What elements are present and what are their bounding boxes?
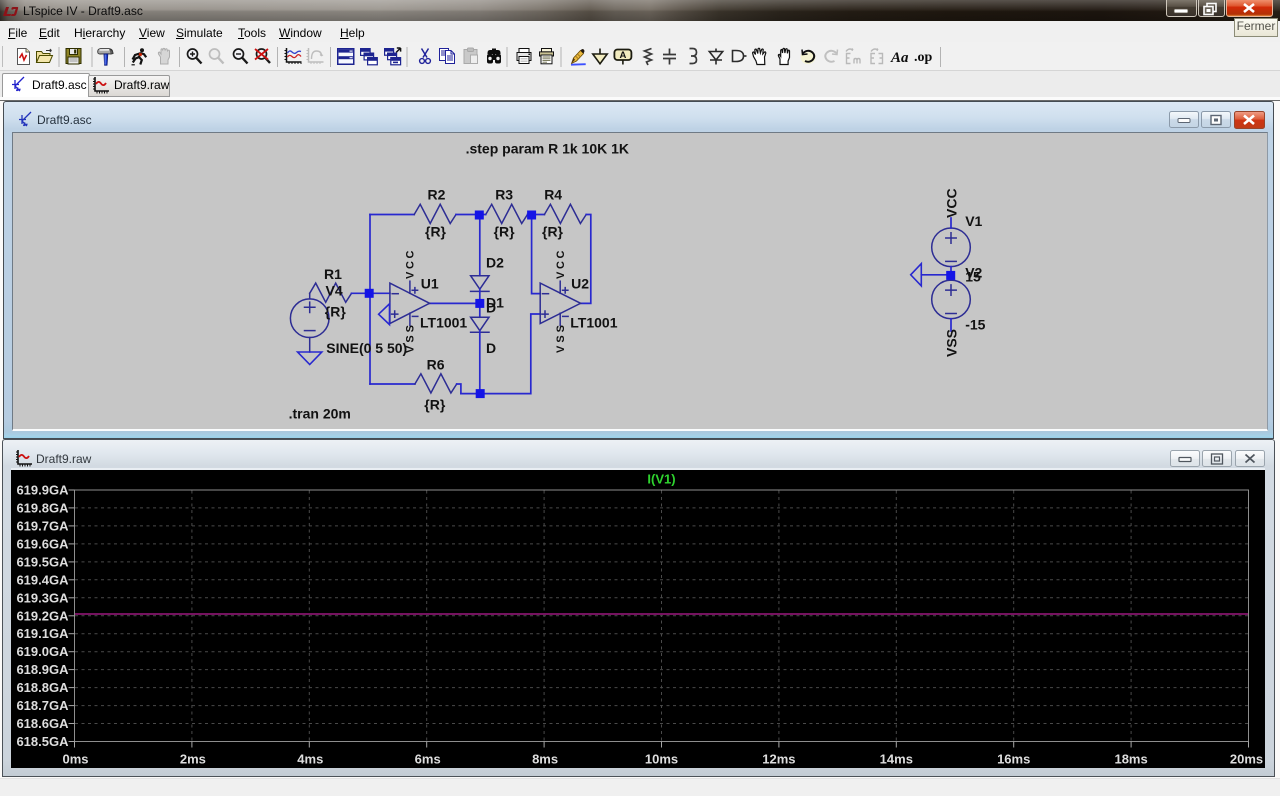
svg-text:619.0GA: 619.0GA [16,644,69,659]
labels [289,141,986,422]
wire V1 bottom to V2 top through node F [950,267,952,281]
icon: open [37,49,53,63]
svg-text:619.8GA: 619.8GA [16,500,69,515]
svg-text:LT1001: LT1001 [420,315,467,331]
svg-text:VSS: VSS [944,329,960,357]
svg-text:{R}: {R} [542,224,564,240]
svg-text:VCC: VCC [944,188,960,218]
icon: cut [420,49,431,64]
svg-text:D: D [486,300,496,316]
trace I(V1) [75,613,1248,615]
wire R2 to node A [456,214,479,216]
icon: inductor [690,49,697,64]
raw window icon [16,450,32,467]
icon: zoom out [234,49,248,64]
icon: cascade windows [361,49,378,65]
restore button [1199,0,1225,17]
svg-text:SINE(0 5 50): SINE(0 5 50) [326,340,407,356]
ground (U1 + input) [379,304,390,325]
wire R4 right feedback down [581,215,591,304]
raw tab icon [93,77,109,94]
icon: print [517,49,531,64]
svg-text:20ms: 20ms [1230,752,1263,767]
svg-text:VSS: VSS [405,325,417,353]
x axis labels [62,752,1263,767]
icon: cascade with arrow [385,48,401,65]
wire R6 left lead [370,383,415,385]
svg-text:V1: V1 [965,213,982,229]
waveform window Draft9.raw [2,439,1275,777]
svg-text:Aa: Aa [890,50,909,66]
svg-text:VSS: VSS [555,325,567,353]
wire U1 output to node D [430,302,480,304]
axis ticks bottom [75,742,1249,748]
svg-text:D: D [486,340,496,356]
node D junction [475,299,484,308]
op-amp U1 [390,281,430,325]
wire node D to diode D1 anode [479,303,481,317]
svg-text:U2: U2 [571,276,589,292]
icon: tile windows [338,49,354,65]
svg-text:10ms: 10ms [645,752,678,767]
svg-text:619.5GA: 619.5GA [16,554,69,569]
wire left loop horizontal top [370,214,414,216]
icon: mirror (disabled) [846,49,860,64]
icon: zoom back (disabled) [210,49,224,64]
icon: ground [593,49,607,64]
wire left loop vertical [369,215,371,385]
horizontal gridlines [75,508,1248,724]
svg-text:15: 15 [965,269,981,285]
resistor R2 [414,204,456,223]
icon: undo [801,50,816,65]
svg-text:4ms: 4ms [297,752,323,767]
node A junction [475,211,484,220]
svg-text:619.6GA: 619.6GA [16,536,69,551]
asc window buttons [1169,111,1270,129]
LTspice logo [2,6,19,17]
wire V2 bottom stub to VSS label [950,319,952,331]
voltage source V4 [290,293,329,352]
axis ticks left [69,490,75,742]
wire node F to ground [921,274,946,276]
close button (hovered red) [1227,0,1273,17]
svg-text:{R}: {R} [325,304,347,320]
svg-text:R6: R6 [427,357,445,373]
svg-text:618.7GA: 618.7GA [16,698,69,713]
diode D1 [471,317,489,332]
icon: capacitor [663,49,676,65]
icon: plot settings (disabled) [307,48,324,64]
svg-text:618.5GA: 618.5GA [16,734,69,749]
wire D1 cathode down to node C [479,331,481,394]
wire R6 right to node C [457,384,461,394]
icon: zoom in [188,49,202,64]
svg-text:619.1GA: 619.1GA [16,626,69,641]
svg-text:A: A [619,50,626,61]
wire bottom from node C to U2 plus input [461,314,540,394]
svg-text:619.7GA: 619.7GA [16,518,69,533]
icon: wire (pencil) [571,49,586,65]
raw window buttons (inactive style) [1170,450,1270,468]
schematic window Draft9.asc [3,101,1274,439]
svg-text:8ms: 8ms [532,752,558,767]
asc window icon [19,111,33,128]
icon: autorange y-axis (plot) [285,48,302,64]
toolbar [0,42,1280,71]
svg-text:.step param R 1k 10K 1K: .step param R 1k 10K 1K [466,141,629,157]
toolbar grip [2,46,4,67]
icon: find [487,49,501,64]
icon: pause hand (disabled) [158,48,169,64]
icon: drag (hand) [778,48,789,64]
node B junction [527,211,536,220]
resistor R4 [544,204,586,223]
resistor R1 [310,283,352,302]
y axis labels [16,483,69,750]
icon: print preview [540,49,554,64]
icon: rotate (disabled) [871,49,883,64]
icon: control panel (hammer) [98,49,113,66]
tooltip Fermer [1234,18,1278,37]
svg-text:618.6GA: 618.6GA [16,716,69,731]
minimize button [1167,0,1197,17]
asc tab icon [12,76,26,92]
svg-text:R3: R3 [495,187,513,203]
icon: paste (disabled) [464,48,478,64]
voltage source V2 [932,280,971,319]
svg-text:2ms: 2ms [180,752,206,767]
icon: new schematic [18,49,30,65]
resistor R3 [486,204,528,223]
svg-text:619.9GA: 619.9GA [16,483,69,498]
main window title bar [0,0,1280,22]
svg-text:D2: D2 [486,255,504,271]
wire node A stub [479,214,485,216]
svg-text:{R}: {R} [425,224,447,240]
icon: component [733,51,747,62]
svg-text:VCC: VCC [405,250,417,279]
svg-text:619.2GA: 619.2GA [16,608,69,623]
node E junction [365,289,374,298]
status bar [0,778,1280,796]
icon: net label [614,50,631,65]
svg-text:14ms: 14ms [880,752,913,767]
svg-text:R4: R4 [544,187,562,203]
svg-text:618.8GA: 618.8GA [16,680,69,695]
vertical gridlines [192,491,1131,742]
icon: copy [440,49,455,64]
svg-text:0ms: 0ms [62,752,88,767]
svg-text:-15: -15 [965,317,985,333]
svg-text:.op: .op [914,50,933,65]
svg-text:R2: R2 [428,187,446,203]
diode D2 [471,276,489,292]
wire node B to R4 [528,214,545,216]
svg-text:618.9GA: 618.9GA [16,662,69,677]
icon: zoom full extents [255,49,270,63]
svg-text:{R}: {R} [424,397,446,413]
icon: resistor [645,49,652,66]
menu bar [0,21,1280,42]
icon: save [66,49,81,65]
svg-text:.tran 20m: .tran 20m [289,406,351,422]
plot border frame [75,490,1249,742]
ground (below V4) [298,352,322,365]
svg-text:VCC: VCC [555,250,567,279]
wire node A down to diode D2 anode [479,215,481,276]
icon: redo (disabled) [825,50,837,62]
op-amp U2 [540,281,580,325]
svg-text:V4: V4 [326,282,343,298]
icon: run [132,48,147,65]
icon: move (open hand) [753,48,766,64]
svg-text:R1: R1 [324,266,342,282]
wire V1 top stub to VCC label [950,218,952,228]
svg-text:{R}: {R} [494,224,516,240]
node C junction [476,389,485,398]
svg-text:16ms: 16ms [997,752,1030,767]
svg-text:6ms: 6ms [415,752,441,767]
separators [58,47,60,67]
tab bar [0,71,1280,97]
svg-text:I(V1): I(V1) [647,472,675,487]
wire D2 cathode to node D [479,289,481,303]
window control buttons [1166,0,1276,19]
ground (left of node F, rotated) [911,264,922,286]
wire node B down to U2 inverting input [532,215,541,294]
icon: diode [709,49,722,65]
svg-text:619.4GA: 619.4GA [16,572,69,587]
svg-text:619.3GA: 619.3GA [16,590,69,605]
svg-text:18ms: 18ms [1114,752,1147,767]
resistor R6 [415,374,457,393]
voltage source V1 [932,228,971,267]
svg-text:U1: U1 [421,276,439,292]
wire node E to U1 inverting input [370,292,390,294]
svg-text:12ms: 12ms [762,752,795,767]
wire R1 to node E [352,292,371,294]
node F junction [946,271,955,280]
svg-text:LT1001: LT1001 [570,315,617,331]
